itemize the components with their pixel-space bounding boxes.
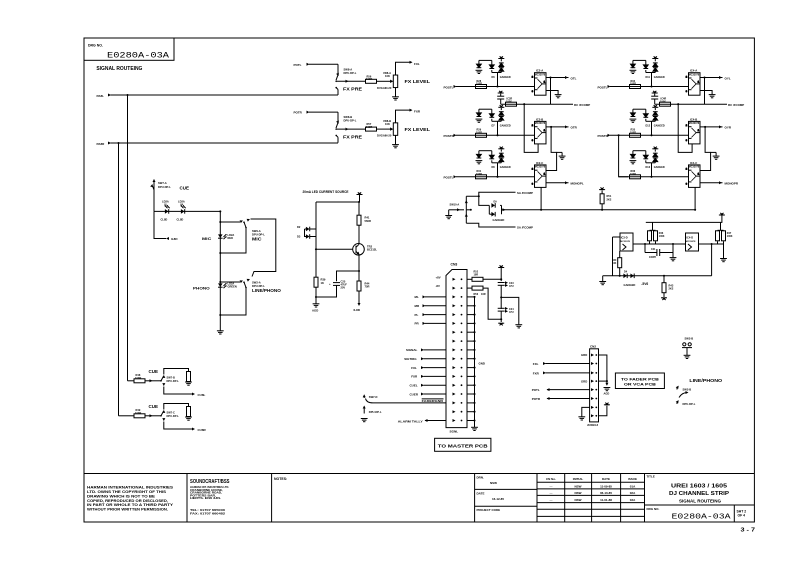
- svg-text:100R: 100R: [476, 173, 482, 176]
- wire feedback A: [704, 78, 706, 105]
- svg-text:AGD: AGD: [604, 392, 610, 396]
- svg-text:02A: 02A: [630, 491, 636, 495]
- svg-text:01A: 01A: [630, 484, 636, 488]
- svg-text:LTD. OWNS THE COPYRIGHT OF THI: LTD. OWNS THE COPYRIGHT OF THIS: [87, 490, 167, 494]
- svg-text:COPIED, REPRODUCED OR DISCLOSE: COPIED, REPRODUCED OR DISCLOSED,: [87, 499, 168, 503]
- svg-text:03A: 03A: [630, 498, 636, 502]
- drg no box top-left: [84, 38, 174, 61]
- svg-text:NSW: NSW: [575, 498, 582, 502]
- diode D10: [491, 212, 504, 222]
- svg-text:POTR: POTR: [294, 111, 303, 115]
- wire main vertical: [219, 211, 221, 330]
- svg-text:DVGAIN-20: DVGAIN-20: [377, 86, 392, 90]
- svg-text:C21: C21: [651, 248, 656, 251]
- node CU8R: [192, 428, 207, 432]
- node PA8L: [97, 94, 112, 98]
- svg-text:GRD: GRD: [581, 353, 587, 357]
- svg-text:16-12-85: 16-12-85: [492, 497, 504, 501]
- wire: [700, 181, 723, 184]
- wire feedback B: [700, 127, 711, 171]
- svg-text:10K: 10K: [385, 74, 390, 78]
- svg-text:HERTS. EN6 3JN.: HERTS. EN6 3JN.: [190, 496, 221, 500]
- svg-text:GANGED: GANGED: [624, 283, 636, 287]
- svg-text:IC2-A: IC2-A: [536, 69, 543, 73]
- svg-text:DPU-DP-L: DPU-DP-L: [344, 119, 357, 123]
- diode D4: [623, 271, 627, 279]
- ground: [599, 276, 606, 285]
- junction: [500, 296, 502, 298]
- switch SW10-A: [449, 196, 472, 223]
- node SIGTRIG: [404, 357, 446, 361]
- svg-text:FX LEVEL: FX LEVEL: [405, 79, 431, 84]
- wire: [358, 271, 360, 281]
- svg-text:POSTR: POSTR: [444, 134, 455, 138]
- border frame: [84, 38, 754, 522]
- gnd bus right of CN3: [471, 297, 485, 431]
- switch SW7-D: [363, 394, 382, 414]
- resistor R31: [476, 170, 487, 179]
- svg-text:SW10-A: SW10-A: [450, 202, 460, 206]
- node SIGNAL: [406, 348, 446, 352]
- svg-text:IC4-D: IC4-D: [686, 236, 693, 240]
- svg-text:MC33078: MC33078: [535, 73, 546, 76]
- node CU8L: [192, 393, 206, 397]
- svg-text:D2: D2: [297, 225, 301, 229]
- resistor R53: [467, 286, 486, 296]
- svg-text:POSTR: POSTR: [598, 134, 609, 138]
- svg-text:100K: 100K: [660, 100, 666, 103]
- ground: [670, 253, 677, 261]
- svg-text:---: ---: [550, 498, 553, 502]
- wire: [396, 110, 412, 123]
- svg-text:MIC: MIC: [252, 237, 262, 242]
- power: [719, 213, 725, 215]
- clamp diodes D13 GANGED: [630, 147, 665, 178]
- wire: [557, 151, 563, 153]
- wire: [358, 291, 361, 306]
- svg-text:OTL: OTL: [571, 76, 577, 80]
- svg-text:MC33078: MC33078: [689, 122, 700, 125]
- node IL8D: [166, 237, 178, 241]
- svg-text:TITLE: TITLE: [647, 475, 655, 479]
- svg-text:100K: 100K: [506, 100, 512, 103]
- revision table: [546, 477, 637, 502]
- wire: [700, 91, 712, 95]
- wire to diodes: [479, 196, 490, 205]
- svg-text:POSTL: POSTL: [444, 176, 454, 180]
- svg-text:20mA LED CURRENT SOURCE: 20mA LED CURRENT SOURCE: [303, 190, 349, 194]
- svg-text:DPU-DP-L: DPU-DP-L: [369, 410, 382, 414]
- wire: [483, 288, 501, 319]
- svg-text:LINE/PHONO: LINE/PHONO: [689, 378, 723, 383]
- svg-text:FX LEVEL: FX LEVEL: [405, 127, 431, 132]
- wire base: [316, 248, 353, 250]
- svg-text:MC33078: MC33078: [620, 241, 630, 243]
- node FXR: [411, 375, 446, 379]
- svg-text:FXL: FXL: [533, 362, 539, 366]
- svg-text:560R: 560R: [365, 219, 371, 223]
- svg-text:MONOPL: MONOPL: [571, 182, 584, 186]
- transistor TR2: [353, 243, 378, 256]
- wire: [700, 76, 723, 79]
- node FXR: [410, 109, 421, 114]
- wire: [546, 76, 569, 79]
- wire: [377, 80, 389, 82]
- ground: [559, 152, 566, 159]
- svg-text:E0280A-03A: E0280A-03A: [672, 514, 732, 522]
- svg-text:POTL: POTL: [294, 63, 302, 67]
- company block: [190, 479, 230, 515]
- svg-text:ML: ML: [415, 295, 419, 299]
- wire: [359, 195, 361, 203]
- resistor fb 100K: [506, 98, 517, 107]
- junction: [550, 126, 552, 128]
- junction: [219, 252, 221, 254]
- junction: [358, 201, 360, 203]
- op-amp IC3-D: [620, 233, 633, 251]
- svg-text:SIGNAL ROUTEING: SIGNAL ROUTEING: [96, 66, 142, 72]
- svg-text:---: ---: [550, 491, 553, 495]
- svg-text:FX PRE: FX PRE: [343, 134, 362, 139]
- junction: [663, 275, 665, 277]
- svg-text:SW7-A: SW7-A: [158, 181, 167, 185]
- node POSTR: [598, 134, 611, 138]
- svg-text:GRD: GRD: [581, 379, 587, 383]
- svg-text:SA /FCOMP: SA /FCOMP: [517, 191, 533, 195]
- svg-text:MC33078: MC33078: [689, 73, 700, 76]
- capacitor C25: [329, 280, 347, 290]
- wire POSTR to stage C: [619, 135, 628, 177]
- svg-text:100R: 100R: [135, 376, 141, 380]
- label FADERGND: [422, 399, 444, 403]
- svg-text:DPU-DP-L: DPU-DP-L: [683, 402, 696, 406]
- wire pin7 to gnd: [582, 407, 590, 416]
- svg-text:NSW: NSW: [490, 481, 497, 485]
- diode D9: [491, 200, 497, 207]
- svg-text:SIGNAL: SIGNAL: [406, 348, 418, 352]
- junction: [315, 296, 317, 298]
- svg-text:TO FADER PCB: TO FADER PCB: [621, 376, 659, 381]
- svg-text:R53: R53: [474, 293, 479, 296]
- wire: [358, 202, 360, 215]
- svg-text:IC2-C: IC2-C: [536, 161, 543, 165]
- svg-text:IL8D: IL8D: [354, 308, 361, 312]
- resistor R29: [476, 129, 487, 138]
- svg-text:SW8-A: SW8-A: [344, 67, 353, 71]
- switch SW7-A: [150, 179, 171, 190]
- copyright text: [87, 486, 174, 512]
- wire bottom throw: [164, 422, 194, 430]
- ground: [185, 382, 192, 385]
- wire: [337, 128, 366, 131]
- op-amp IC4-A: [686, 69, 700, 96]
- svg-text:DPU-DP-L: DPU-DP-L: [167, 414, 180, 418]
- node POTL: [294, 63, 310, 67]
- junction: [677, 103, 679, 105]
- svg-text:GND: GND: [479, 362, 485, 366]
- junction: [219, 281, 221, 283]
- resistor R57: [366, 122, 377, 131]
- resistor R52: [467, 271, 483, 282]
- svg-text:---: ---: [550, 484, 553, 488]
- wire to gnd: [501, 297, 519, 324]
- wire feedback line: [501, 103, 573, 105]
- junction: [703, 76, 705, 78]
- svg-text:PA8L: PA8L: [97, 94, 105, 98]
- junction: [704, 126, 706, 128]
- wire mic loop: [220, 228, 246, 254]
- junction: [500, 278, 502, 280]
- wire phono loop: [220, 288, 246, 316]
- wire mic to line bus: [251, 219, 276, 277]
- wire: [546, 181, 569, 184]
- switch SW7-C: [160, 410, 179, 421]
- junction: [358, 270, 360, 272]
- wire output mesh: [633, 243, 686, 245]
- wire: [315, 202, 317, 277]
- svg-text:3 - 7: 3 - 7: [741, 528, 756, 534]
- svg-text:OYR: OYR: [725, 126, 732, 130]
- clamp diodes D11 GANGED: [630, 56, 665, 87]
- box TO MASTER PCB: [435, 438, 491, 451]
- svg-text:FXR: FXR: [414, 110, 421, 114]
- node POSTL: [444, 175, 457, 179]
- resistor R44: [357, 281, 370, 291]
- op-amp IC4-D: [686, 233, 699, 251]
- ground: [445, 216, 452, 219]
- svg-text:CN3: CN3: [451, 262, 458, 266]
- svg-text:10R: 10R: [474, 273, 479, 276]
- ground: [392, 97, 399, 100]
- wire collector: [358, 225, 360, 243]
- node POSTL: [598, 85, 611, 89]
- svg-text:RC /FCOMP: RC /FCOMP: [728, 103, 744, 107]
- switch SW7-B: [160, 375, 179, 386]
- wire feedback B: [546, 127, 557, 171]
- node ML: [415, 295, 447, 299]
- wire: [396, 62, 412, 75]
- svg-text:CUE: CUE: [180, 186, 190, 191]
- wire: [500, 311, 502, 322]
- wire: [456, 86, 535, 88]
- switch SW2-B: [676, 385, 696, 406]
- wire: [315, 287, 317, 303]
- feedback resistors R47: [716, 230, 733, 244]
- svg-text:100R: 100R: [630, 173, 636, 176]
- node MR: [415, 304, 447, 308]
- node CUER: [410, 392, 447, 396]
- svg-text:FAX: 01707 660482: FAX: 01707 660482: [190, 511, 225, 515]
- svg-text:CN No.: CN No.: [546, 477, 556, 481]
- svg-text:BC212L: BC212L: [367, 248, 377, 252]
- wire: [456, 134, 535, 136]
- power -8V down: [498, 323, 504, 325]
- node CUEL: [410, 384, 447, 388]
- junction: [549, 76, 551, 78]
- svg-text:SGNL: SGNL: [450, 429, 459, 433]
- svg-text:POSTL: POSTL: [598, 85, 608, 89]
- junction: [315, 248, 317, 250]
- svg-text:CL8D: CL8D: [177, 217, 184, 221]
- svg-text:FXR: FXR: [411, 375, 418, 379]
- svg-text:75R: 75R: [365, 285, 370, 289]
- svg-text:2K2: 2K2: [669, 287, 674, 291]
- resistor R56: [366, 74, 377, 83]
- svg-text:10K: 10K: [385, 122, 390, 126]
- clamp diodes D8 GANGED: [476, 147, 511, 178]
- svg-text:D12: D12: [646, 125, 651, 128]
- svg-text:IC2-B: IC2-B: [536, 117, 543, 121]
- wire: [711, 244, 713, 276]
- op-amp IC2-C: [532, 161, 546, 188]
- pot VR8-B: [377, 119, 398, 138]
- svg-text:E0280A-03A: E0280A-03A: [107, 52, 169, 61]
- node ALARM TALLY: [398, 419, 446, 423]
- wire pin1 loop: [599, 355, 607, 381]
- wire to stage B: [524, 104, 538, 152]
- wire feedback A: [550, 78, 552, 105]
- wire: [619, 176, 689, 178]
- ground: [713, 152, 720, 159]
- junction: [694, 209, 696, 211]
- wire SA/FCOMP lower: [466, 223, 515, 227]
- wire: [652, 222, 654, 230]
- svg-text:TO MASTER PCB: TO MASTER PCB: [438, 443, 488, 448]
- svg-text:MC33078: MC33078: [689, 166, 700, 169]
- wire: [700, 125, 723, 128]
- drn/date/project: [477, 476, 505, 513]
- svg-text:100R: 100R: [366, 77, 372, 81]
- svg-text:IL8D: IL8D: [171, 237, 178, 241]
- svg-text:ISSUE: ISSUE: [628, 477, 637, 481]
- svg-text:SW9-A: SW9-A: [252, 229, 261, 233]
- svg-text:DATE: DATE: [477, 492, 485, 496]
- svg-text:NOTES:: NOTES:: [274, 477, 287, 481]
- resistor R51: [599, 188, 612, 211]
- svg-text:CUE: CUE: [149, 404, 159, 409]
- svg-text:100R: 100R: [476, 131, 482, 134]
- svg-text:RED: RED: [228, 236, 234, 240]
- switch SW9-A: [240, 218, 266, 237]
- resistor R36: [630, 170, 641, 179]
- wire: [145, 414, 161, 417]
- svg-text:10K: 10K: [612, 262, 617, 265]
- svg-text:100R: 100R: [630, 131, 636, 134]
- wire: [316, 285, 337, 297]
- ground: [555, 95, 562, 98]
- ground: [684, 355, 691, 358]
- capacitor fb: [497, 91, 504, 104]
- wire: [546, 91, 558, 95]
- svg-text:GANGED: GANGED: [500, 76, 511, 79]
- svg-text:CUER: CUER: [410, 392, 419, 396]
- diode D2: [297, 225, 316, 231]
- svg-text:DRG NO.: DRG NO.: [88, 44, 103, 48]
- op-amp IC2-B: [532, 117, 546, 143]
- connector CN3: [446, 262, 476, 427]
- wire top rail: [316, 201, 360, 203]
- svg-text:LINE/PHONO: LINE/PHONO: [252, 288, 282, 293]
- wire: [610, 134, 689, 136]
- wire: [337, 80, 366, 83]
- svg-text:DRG NO.: DRG NO.: [647, 507, 660, 511]
- svg-text:D11: D11: [646, 76, 651, 79]
- wire: [500, 268, 502, 282]
- wire: [309, 63, 338, 65]
- svg-text:1K: 1K: [321, 281, 324, 285]
- wire: [111, 142, 339, 144]
- svg-text:AGD: AGD: [312, 309, 318, 313]
- svg-text:100R: 100R: [366, 125, 372, 129]
- svg-text:DPU-DP-L: DPU-DP-L: [158, 185, 171, 189]
- svg-text:RC /FCOMP: RC /FCOMP: [574, 103, 590, 107]
- svg-text:SIGNAL ROUTEING: SIGNAL ROUTEING: [679, 499, 721, 504]
- resistor R49: [134, 408, 145, 418]
- diode D5: [624, 274, 636, 287]
- node POTL: [532, 388, 590, 392]
- wire: [337, 112, 339, 123]
- wire: [711, 151, 717, 153]
- wire: [720, 222, 722, 230]
- junction: [219, 210, 221, 212]
- svg-text:GANGED: GANGED: [654, 125, 665, 128]
- diode D3: [297, 229, 316, 239]
- svg-text:PA8R: PA8R: [97, 142, 106, 146]
- power: [357, 192, 363, 194]
- wire from bus2: [119, 415, 135, 417]
- junction: [540, 209, 542, 211]
- wire bus to cue 1: [127, 95, 129, 381]
- svg-text:47U: 47U: [509, 311, 514, 314]
- capacitor C24: [498, 307, 514, 314]
- switch SW2-A: [240, 278, 266, 289]
- svg-text:CUEL: CUEL: [410, 384, 418, 388]
- svg-text:IC4-B: IC4-B: [690, 117, 697, 121]
- wire feedback line: [655, 103, 727, 105]
- resistor R43: [662, 276, 674, 297]
- wire to C25: [337, 271, 360, 281]
- wire input: [613, 237, 621, 276]
- ground: [515, 325, 522, 328]
- svg-text:100R: 100R: [135, 411, 141, 415]
- resistor fb 100K: [660, 98, 671, 107]
- op-amp IC4-B: [686, 117, 700, 143]
- pot VR8-A: [377, 71, 398, 90]
- op-amp IC2-A: [532, 69, 546, 96]
- svg-text:MC33078: MC33078: [535, 166, 546, 169]
- ground: [578, 417, 585, 420]
- svg-text:IN PART OR WHOLE TO A THIRD PA: IN PART OR WHOLE TO A THIRD PARTY: [87, 503, 174, 507]
- node PL: [415, 313, 447, 317]
- svg-text:OTR: OTR: [571, 126, 578, 130]
- svg-text:SW2-B: SW2-B: [683, 387, 692, 391]
- title area: [647, 475, 756, 534]
- wire bus to cue 2: [118, 143, 120, 416]
- wire to ILED: [154, 211, 166, 238]
- LED LD2A GREEN: [218, 281, 237, 288]
- node FXL: [410, 61, 420, 66]
- power down: [661, 298, 667, 300]
- svg-text:GANGED: GANGED: [493, 218, 505, 222]
- svg-text:SW2-B: SW2-B: [685, 336, 694, 340]
- resistor: [187, 407, 191, 417]
- switch SW8-B: [335, 115, 356, 143]
- svg-text:11-01-88: 11-01-88: [600, 498, 612, 502]
- jumper contacts: [682, 343, 692, 355]
- svg-text:47U: 47U: [509, 285, 514, 288]
- wire: [309, 111, 338, 113]
- switch SW8-A: [335, 67, 356, 95]
